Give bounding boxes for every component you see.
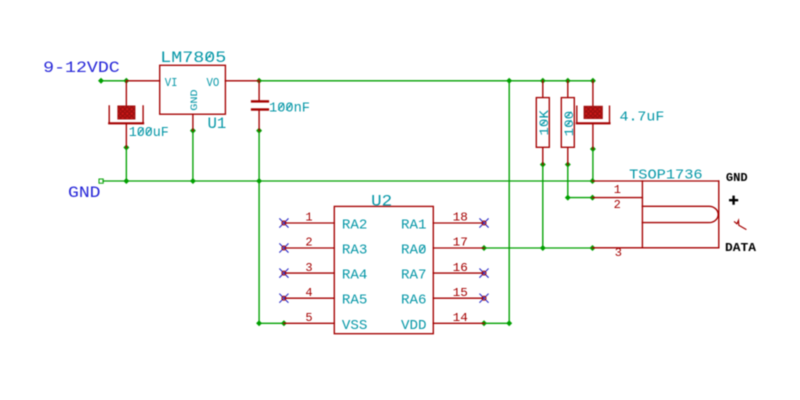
TSOP IR squiggle [735, 221, 746, 230]
TSOP box left edge [641, 181, 643, 248]
RA0 zero slash [419, 245, 425, 252]
svg-text:RA2: RA2 [342, 218, 368, 234]
capacitor C1 100uF top pin [125, 81, 127, 106]
svg-text:2: 2 [305, 236, 312, 250]
node nc pin1 [280, 219, 288, 227]
10K zero slash [541, 120, 547, 125]
wire 100R bottom down to TSOP pin2 [567, 165, 569, 198]
node 10K top [540, 78, 546, 84]
wire TSOP pin2 stub [593, 197, 643, 199]
TEXTS [43, 59, 120, 202]
wire 100uF bottom to GND rail [125, 148, 127, 182]
node 4.7uF bottom [590, 146, 596, 152]
pin end circles [282, 221, 486, 300]
svg-text:RA5: RA5 [342, 293, 368, 309]
wire U2 pin18 stub [433, 222, 484, 224]
svg-text:1: 1 [614, 183, 621, 197]
node 100R top [565, 78, 571, 84]
node 100uF bottom [123, 145, 129, 151]
op-amp U1 LM7805 box [160, 65, 226, 114]
svg-text:2: 2 [614, 198, 621, 212]
svg-text:VSS: VSS [342, 318, 368, 334]
TSOP pad label plus [729, 196, 738, 205]
capacitor C2 100nF top pin [258, 81, 260, 101]
svg-text:GND: GND [726, 171, 748, 185]
svg-text:U2: U2 [371, 192, 392, 210]
100uF zero slashes [138, 128, 152, 135]
wire U2 pin14 stub [433, 322, 484, 324]
node TSOP pin2 junction [590, 195, 596, 201]
node nc pin16 [480, 269, 488, 277]
svg-text:RA7: RA7 [401, 268, 427, 284]
node TSOP pin3 junction [590, 245, 596, 251]
svg-text:TSOP1736: TSOP1736 [629, 167, 703, 183]
svg-text:3: 3 [305, 261, 312, 275]
svg-text:VO: VO [207, 76, 220, 90]
capacitor C1 100uF minus bracket [109, 106, 143, 123]
svg-text:15: 15 [453, 286, 468, 300]
wire U1 VI pin stub [126, 80, 159, 82]
node nc pin15 [480, 294, 488, 302]
node nc pin2 [280, 244, 288, 252]
node VI junction [123, 78, 129, 84]
capacitor C3 4.7uF minus bracket [577, 106, 610, 122]
resistor R2 100 top pin [567, 81, 569, 98]
node GND label stub square [99, 179, 103, 183]
wire U2 pin5 stub [284, 322, 334, 324]
svg-text:RA6: RA6 [401, 293, 427, 309]
node 100nF bottom [256, 128, 262, 134]
wire GND rail [103, 180, 593, 182]
wire U1 GND pin stub [192, 114, 194, 130]
svg-text:4: 4 [305, 286, 312, 300]
IC U2 PIC box [334, 206, 433, 333]
wire RA0 to TSOP DATA pin3 [484, 247, 593, 249]
svg-text:RA3: RA3 [342, 243, 368, 259]
wire U1 GND pin to GND rail [192, 131, 194, 181]
IC U3 TSOP1736 [593, 181, 746, 248]
node nc pin18 [480, 219, 488, 227]
resistor R1 10K bottom pin [542, 147, 544, 164]
node 10K bottom [540, 162, 546, 168]
100nF zero slashes [278, 103, 292, 110]
node 5V-VDD corner [506, 78, 512, 84]
node 4.7uF top [590, 78, 596, 84]
resistor R2 100 bottom pin [567, 147, 569, 164]
svg-text:1: 1 [305, 211, 312, 225]
wire 4.7uF bottom to TSOP pin1 [592, 149, 594, 181]
svg-text:GND: GND [68, 184, 101, 202]
node RA0 10K junction [540, 245, 546, 251]
node GND rail j2 [190, 178, 196, 184]
wire U2 pin2 stub [284, 247, 334, 249]
wire U2 pin4 stub [284, 297, 334, 299]
node nc pin3 [280, 269, 288, 277]
wire 10K bottom down to RA0 net [542, 165, 544, 249]
node VIN start [98, 78, 104, 84]
red symbol graphics [109, 65, 609, 164]
capacitor C1 100uF plus plate [118, 106, 135, 119]
node nc pin4 [280, 294, 288, 302]
wire 5V rail VO to 4.7uF [259, 80, 593, 82]
wire U2 pin17 stub [433, 247, 484, 249]
svg-text:GND: GND [189, 89, 201, 110]
svg-text:17: 17 [453, 236, 468, 250]
node 100R bottom [565, 162, 571, 168]
svg-text:4.7uF: 4.7uF [620, 111, 665, 126]
svg-text:100nF: 100nF [269, 101, 310, 116]
wire U1 VO pin stub [225, 80, 259, 82]
wire U2 pin16 stub [433, 272, 484, 274]
svg-text:VI: VI [165, 76, 178, 90]
svg-text:U1: U1 [208, 115, 227, 133]
node VSS pin5 junction [281, 320, 287, 326]
capacitor C1 100uF bottom pin [125, 123, 127, 147]
node VO junction [256, 78, 262, 84]
wire U2 pin1 stub [284, 222, 334, 224]
svg-text:RA0: RA0 [401, 243, 427, 259]
capacitor C3 4.7uF plus plate [584, 106, 602, 118]
node GND rail j1 [123, 178, 129, 184]
resistor R1 10K top pin [542, 81, 544, 98]
TSOP box right edge [718, 181, 720, 248]
LM7805 zero slash [206, 52, 213, 60]
wire 100nF bottom through GND rail to VSS [258, 131, 260, 324]
svg-text:100uF: 100uF [129, 126, 169, 141]
svg-text:3: 3 [615, 246, 622, 260]
svg-text:RA4: RA4 [342, 268, 368, 284]
node VSS corner [256, 320, 262, 326]
wire 5V rail down to VDD [508, 81, 510, 323]
svg-text:LM7805: LM7805 [160, 49, 226, 67]
zero slashes [138, 52, 571, 252]
svg-text:14: 14 [453, 311, 468, 325]
svg-text:9-12VDC: 9-12VDC [43, 59, 120, 77]
capacitor C2 100nF bottom pin [258, 111, 260, 131]
100 zero slashes [566, 112, 572, 126]
svg-text:DATA: DATA [725, 241, 757, 255]
svg-text:16: 16 [453, 261, 468, 275]
node VDD corner [506, 320, 512, 326]
node pin2 corner [565, 195, 571, 201]
node U1 GND pin [190, 128, 196, 134]
svg-text:5: 5 [305, 311, 312, 325]
node GND rail j3 [256, 178, 262, 184]
wire VIN to VI junction [101, 80, 126, 82]
resistor R1 10K body [536, 98, 549, 148]
no-connect X marks [280, 219, 489, 303]
wire VSS horizontal [259, 322, 284, 324]
wire TSOP pin3 stub + box bottom [593, 247, 719, 249]
svg-text:100: 100 [563, 111, 577, 137]
capacitor C2 100nF plates [251, 100, 269, 111]
svg-text:10K: 10K [538, 110, 552, 136]
wire TSOP pin1 stub + box top [593, 180, 719, 182]
wire 9-12VDC rail top [101, 81, 593, 323]
capacitor C3 4.7uF top pin [592, 81, 594, 106]
svg-text:18: 18 [453, 211, 468, 225]
svg-text:VDD: VDD [401, 318, 427, 334]
resistor R2 100 body [561, 98, 574, 148]
node VDD pin14 junction [481, 320, 487, 326]
wire U2 pin3 stub [284, 272, 334, 274]
svg-text:RA1: RA1 [401, 218, 427, 234]
wire U2 pin15 stub [433, 297, 484, 299]
TSOP lens D-shape [642, 206, 718, 222]
node RA0 pin17 junction [481, 245, 487, 251]
wire VDD horizontal [484, 322, 509, 324]
node TSOP pin1 junction [590, 178, 596, 184]
capacitor C3 4.7uF bottom pin [592, 123, 594, 149]
junction dots green diamonds [98, 78, 596, 326]
wire to TSOP pin2 [568, 197, 593, 199]
